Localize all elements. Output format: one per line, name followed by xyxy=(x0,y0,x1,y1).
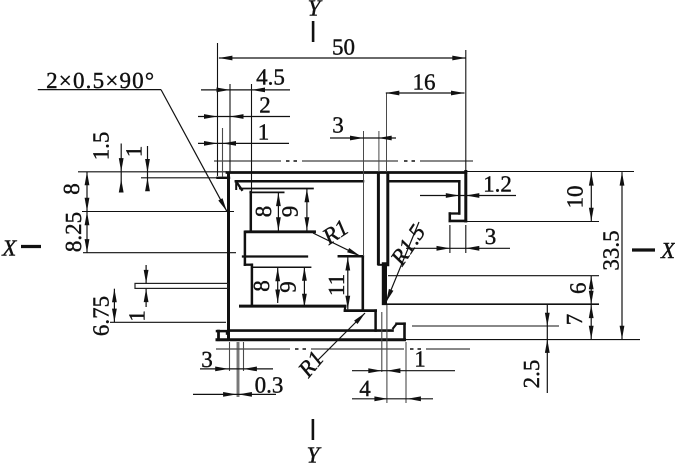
svg-text:50: 50 xyxy=(332,35,355,60)
svg-text:1.5: 1.5 xyxy=(88,132,113,161)
svg-text:6: 6 xyxy=(566,283,591,295)
svg-text:1: 1 xyxy=(414,347,426,372)
svg-text:8: 8 xyxy=(251,206,276,218)
svg-text:2.5: 2.5 xyxy=(519,360,544,389)
svg-text:11: 11 xyxy=(324,274,349,296)
svg-text:6.75: 6.75 xyxy=(88,296,113,336)
svg-text:1: 1 xyxy=(125,310,150,322)
svg-text:Y: Y xyxy=(307,443,322,463)
svg-text:7: 7 xyxy=(562,314,587,326)
svg-text:1: 1 xyxy=(122,146,147,158)
svg-text:4: 4 xyxy=(359,376,371,401)
svg-text:3: 3 xyxy=(485,224,497,249)
svg-text:Y: Y xyxy=(308,0,323,21)
svg-text:X: X xyxy=(1,236,17,261)
svg-text:3: 3 xyxy=(332,113,344,138)
svg-text:2: 2 xyxy=(259,93,271,118)
svg-text:X: X xyxy=(660,238,675,263)
svg-text:4.5: 4.5 xyxy=(256,65,285,90)
svg-text:16: 16 xyxy=(413,70,436,95)
svg-text:10: 10 xyxy=(563,186,588,209)
svg-text:9: 9 xyxy=(276,281,301,293)
svg-text:8.25: 8.25 xyxy=(61,212,86,252)
svg-text:0.3: 0.3 xyxy=(255,373,284,398)
svg-text:3: 3 xyxy=(201,347,213,372)
svg-text:1.2: 1.2 xyxy=(483,172,512,197)
svg-text:1: 1 xyxy=(258,120,270,145)
svg-text:8: 8 xyxy=(249,280,274,292)
svg-text:33.5: 33.5 xyxy=(599,230,624,270)
svg-text:9: 9 xyxy=(278,206,303,218)
svg-text:8: 8 xyxy=(59,183,84,195)
